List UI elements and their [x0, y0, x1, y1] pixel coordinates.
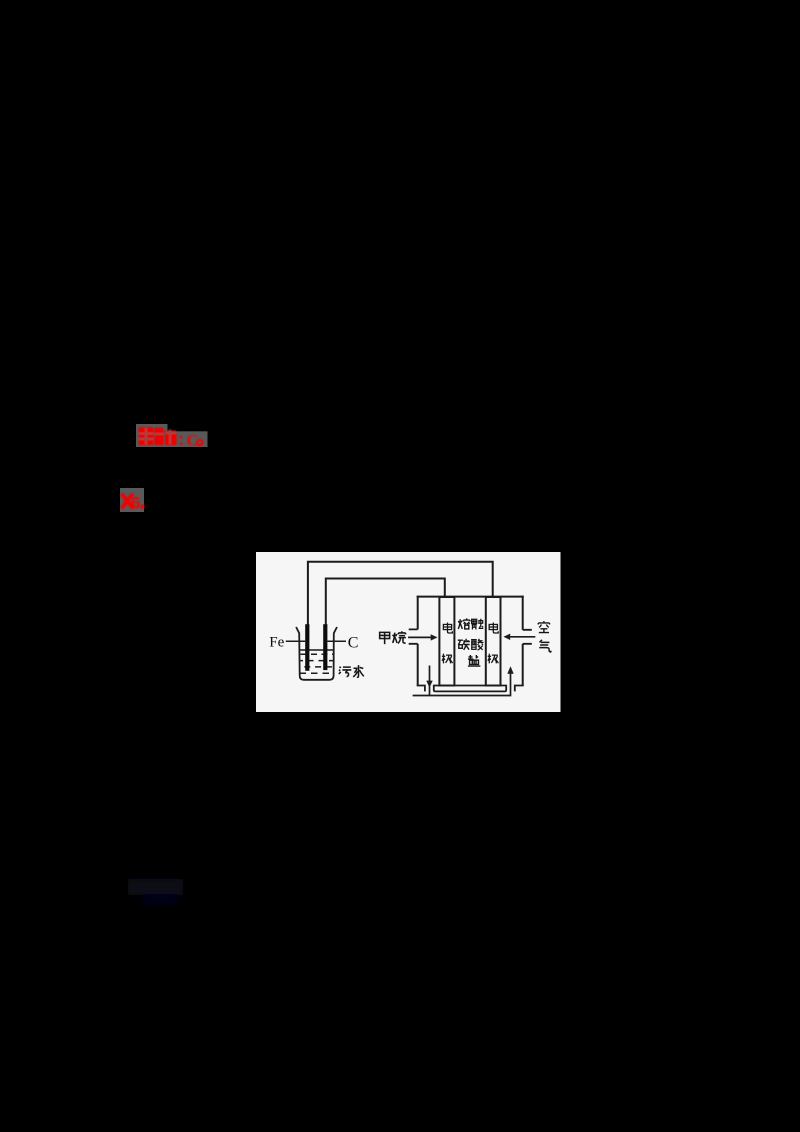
C label lead line — [327, 640, 346, 642]
white panel — [256, 552, 561, 712]
faint ink smudge — [128, 879, 183, 905]
fuel cell top wall — [417, 596, 524, 598]
fuel cell left wall (above gas inlet) — [417, 596, 419, 630]
label 电 (left plate) — [443, 622, 452, 632]
cell floor line — [434, 685, 506, 687]
liquid dashed line 2 — [301, 660, 334, 662]
wire from Fe electrode to right fuel-cell electrode — [308, 562, 493, 625]
air arrow — [503, 634, 535, 640]
fuel cell right wall (below gas inlet) — [522, 644, 524, 686]
Fe electrode bar — [305, 624, 309, 671]
label 污 (wastewater) — [339, 667, 352, 677]
label 电 (right plate) — [489, 622, 498, 632]
liquid dashed line 1 — [301, 653, 334, 655]
label 盐 (electrolyte) — [468, 655, 480, 666]
bottom tray — [434, 685, 506, 692]
Fe label lead line — [286, 640, 305, 642]
beaker outline — [296, 627, 337, 680]
label 空 (air) — [538, 621, 549, 633]
methane inlet pipe walls — [409, 629, 418, 643]
red 6. — [131, 494, 145, 513]
label 水 (wastewater) — [353, 665, 364, 677]
fuel cell left wall (below gas inlet) — [417, 644, 419, 686]
question number highlight gray box — [120, 488, 144, 512]
fuel cell right wall (above gas inlet) — [522, 596, 524, 630]
methane arrow — [408, 634, 437, 640]
label 碳 (electrolyte) — [458, 639, 470, 650]
red X mark — [123, 495, 133, 507]
label 极 (left plate) — [442, 654, 453, 664]
wire from C electrode to left fuel-cell electrode — [326, 579, 445, 625]
liquid dashed line 4 — [301, 672, 334, 674]
label 甲 (methane) — [380, 632, 390, 644]
left wall foot and step — [417, 686, 425, 692]
right electrode plate — [486, 597, 501, 686]
liquid dashed line 3 — [301, 666, 334, 668]
down outlet arrow — [426, 666, 432, 696]
left electrode plate — [439, 597, 454, 686]
liquid surface line — [300, 649, 334, 651]
red letter C answer — [187, 433, 203, 450]
svg-text:6: 6 — [131, 494, 140, 513]
label 烷 (methane) — [393, 631, 406, 643]
label 酸 (electrolyte) — [471, 639, 483, 650]
label 气 (air) — [539, 640, 551, 652]
right wall foot and step — [515, 686, 524, 692]
svg-text:C: C — [187, 433, 199, 450]
svg-text:Fe: Fe — [269, 634, 284, 650]
bottom recycle pipe with up arrow — [413, 666, 514, 695]
C electrode bar — [323, 624, 327, 670]
label 融 (electrolyte) — [472, 619, 484, 630]
label 极 (right plate) — [488, 654, 499, 664]
air inlet pipe walls — [523, 630, 532, 644]
red answer text blobs — [139, 427, 183, 445]
answer highlight gray box — [136, 424, 208, 447]
label 熔 (electrolyte) — [458, 618, 470, 629]
svg-text:C: C — [348, 635, 359, 652]
